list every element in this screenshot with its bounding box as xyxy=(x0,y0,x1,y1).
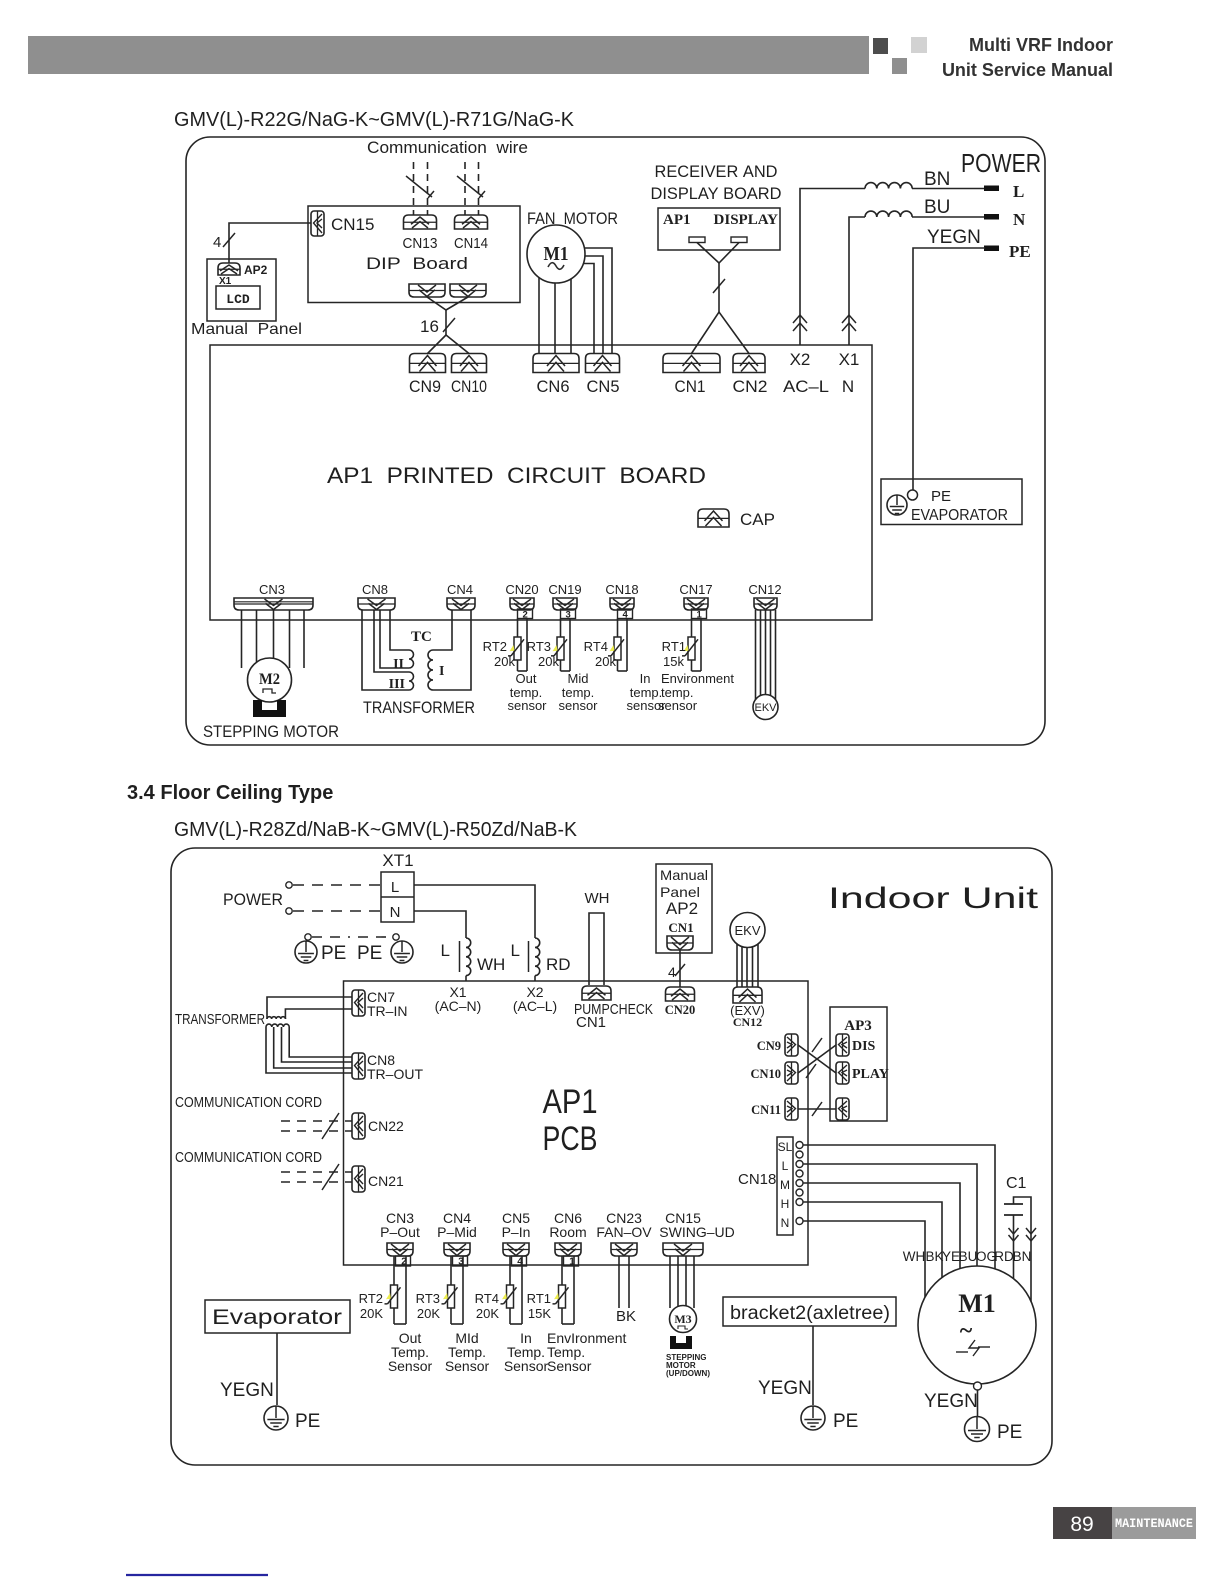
terminal L bar xyxy=(984,186,999,192)
label RT3 xyxy=(527,639,551,654)
terminal block CN18 xyxy=(777,1137,793,1235)
label Panel d2 xyxy=(660,884,700,900)
label TR-OUT xyxy=(367,1066,423,1082)
wire CN18 M to motor xyxy=(803,1183,960,1285)
connector AP3 third xyxy=(836,1098,849,1120)
svg-text:CN20: CN20 xyxy=(665,1003,696,1017)
node PE evaporator circle xyxy=(908,490,918,500)
svg-text:COMMUNICATION CORD: COMMUNICATION CORD xyxy=(175,1149,322,1166)
label RT3 d2 xyxy=(416,1291,440,1306)
svg-text:L: L xyxy=(782,1159,789,1173)
svg-text:PE: PE xyxy=(833,1411,858,1432)
box bracket2 xyxy=(723,1297,896,1326)
label M1 d2 xyxy=(958,1289,996,1318)
svg-text:(AC–N): (AC–N) xyxy=(435,998,482,1014)
svg-text:RT4: RT4 xyxy=(584,639,608,654)
connector CN2 xyxy=(733,354,765,373)
label DIS xyxy=(852,1039,876,1054)
svg-text:15K: 15K xyxy=(528,1306,551,1321)
svg-text:RT1: RT1 xyxy=(662,639,686,654)
label TRANSFORMER xyxy=(363,698,475,717)
svg-text:II: II xyxy=(393,657,404,672)
svg-text:CN22: CN22 xyxy=(368,1118,404,1134)
label RT1 xyxy=(662,639,686,654)
label EVAPORATOR xyxy=(911,507,1008,524)
svg-text:H: H xyxy=(781,1197,790,1211)
svg-text:DIS: DIS xyxy=(852,1039,876,1054)
sensor loop RT1 d2 xyxy=(553,1256,575,1324)
wire AP2 to CN15 xyxy=(229,223,311,263)
slash AP2 wire d2 xyxy=(675,964,685,976)
label RT3 text d2 xyxy=(445,1330,490,1374)
wire EKV to CN12 d2 xyxy=(737,940,758,987)
label CN1 xyxy=(675,377,706,396)
label CN6 xyxy=(537,377,570,396)
motor M2 circle xyxy=(248,658,292,702)
label WH choke xyxy=(477,955,505,974)
svg-text:X2: X2 xyxy=(790,350,811,369)
svg-text:DISPLAY: DISPLAY xyxy=(714,212,779,228)
ground PE right xyxy=(391,941,413,963)
label PE evaporator d2 xyxy=(295,1411,320,1432)
wire display board to CN1 CN2 xyxy=(692,243,750,354)
choke RD winding xyxy=(535,938,540,976)
wire AP2 to CN20 d2 xyxy=(679,950,681,987)
sensor loop RT3 xyxy=(551,609,576,671)
svg-text:BN: BN xyxy=(1013,1249,1032,1264)
label in temp sensor xyxy=(626,671,666,713)
label PUMPCHECK CN1 xyxy=(576,1014,606,1031)
float switch WH body xyxy=(589,913,604,985)
svg-text:PE: PE xyxy=(1009,242,1031,261)
connector CN9 d2 xyxy=(785,1034,798,1056)
ground PE bracket2 xyxy=(801,1406,825,1430)
svg-text:RT1: RT1 xyxy=(527,1291,551,1306)
svg-text:L: L xyxy=(391,879,399,896)
label M1 tilde d2 xyxy=(960,1318,973,1344)
wire comm cord 1a xyxy=(281,1120,352,1122)
svg-text:CN15: CN15 xyxy=(331,215,374,234)
svg-text:3.4 Floor Ceiling Type: 3.4 Floor Ceiling Type xyxy=(127,782,333,804)
label RT2 20K d2 xyxy=(360,1306,383,1321)
winding II xyxy=(409,650,414,668)
label AP1 big xyxy=(543,1083,598,1121)
slash 4-wire AP2 xyxy=(223,233,235,247)
header mid square xyxy=(892,58,907,74)
connector CN3 d2row xyxy=(387,1243,413,1256)
svg-text:Environment: Environment xyxy=(661,671,734,686)
label FAN MOTOR xyxy=(527,209,618,228)
wire M1 to CN6 c xyxy=(570,270,572,353)
sensor loop RT4 d2 xyxy=(501,1256,523,1324)
svg-text:Evaporator: Evaporator xyxy=(212,1306,342,1329)
slash comm cord 2 xyxy=(322,1164,339,1190)
terminal block XT1 xyxy=(381,872,414,922)
label CN20 d2 xyxy=(665,1003,696,1017)
label EXV xyxy=(730,1003,765,1018)
label RT2 20k xyxy=(494,654,515,669)
connector CN15 on DIP board xyxy=(311,211,324,236)
svg-text:CN1: CN1 xyxy=(668,920,693,935)
connector CN21 xyxy=(352,1166,365,1192)
symbol M3 mark xyxy=(678,1326,688,1329)
wire PE dashed right xyxy=(358,936,392,938)
label DISPLAY BOARD xyxy=(651,184,782,203)
wire DIP to 16-bus xyxy=(427,297,469,354)
motor M1 circle xyxy=(527,225,585,283)
label CN20 d1 xyxy=(505,582,538,597)
sensor loop RT3 d2 xyxy=(442,1256,464,1324)
svg-text:EKV: EKV xyxy=(734,923,760,938)
svg-text:DIP Board: DIP Board xyxy=(366,254,468,273)
wire CN18 N to motor xyxy=(803,1221,925,1310)
board AP1 PCB box xyxy=(344,981,809,1265)
box evaporator xyxy=(881,479,1022,525)
wire N to WH choke xyxy=(414,911,466,981)
svg-text:CN14: CN14 xyxy=(454,235,488,252)
connector AP3 PLAY xyxy=(836,1062,849,1084)
choke WH core xyxy=(459,941,461,972)
svg-text:SL: SL xyxy=(778,1140,793,1154)
label RT1 d2 xyxy=(527,1291,551,1306)
wire secondary to CN8 1 xyxy=(266,1027,352,1073)
pin number 4 xyxy=(512,1256,527,1268)
section heading 3.4 xyxy=(127,782,333,804)
label PE PE xyxy=(321,943,382,964)
label X1 terminal xyxy=(839,350,860,369)
label motor wire colours xyxy=(903,1249,1032,1264)
svg-text:CN18: CN18 xyxy=(605,582,638,597)
label X1 xyxy=(219,276,232,287)
label CN10 xyxy=(451,377,487,396)
node PE left circle xyxy=(305,934,311,940)
svg-text:WH: WH xyxy=(477,955,505,974)
wire M1 to CN5 b xyxy=(570,256,603,353)
label RT2 d2 xyxy=(359,1291,383,1306)
svg-text:PE: PE xyxy=(997,1422,1022,1443)
svg-text:YEGN: YEGN xyxy=(927,227,981,248)
terminal N bar xyxy=(984,214,999,220)
connector DIP lower b xyxy=(450,284,486,297)
board AP1 printed circuit board box xyxy=(210,345,872,620)
svg-text:Sensor: Sensor xyxy=(547,1358,592,1374)
label RD choke xyxy=(546,955,571,974)
svg-text:sensor: sensor xyxy=(658,698,698,713)
wire PE to evaporator xyxy=(913,248,985,490)
svg-text:CN4: CN4 xyxy=(447,582,473,597)
connector CN10 d2 xyxy=(785,1062,798,1084)
svg-text:COMMUNICATION CORD: COMMUNICATION CORD xyxy=(175,1094,322,1111)
wire power L dashed xyxy=(293,884,381,886)
node PE right circle xyxy=(393,934,399,940)
svg-text:In: In xyxy=(640,671,651,686)
capacitor C1 xyxy=(1004,1197,1031,1310)
label Indoor Unit xyxy=(828,882,1039,915)
svg-text:CN1: CN1 xyxy=(576,1014,606,1031)
capacitor CAP symbol xyxy=(698,509,729,527)
connector CN12 d1 xyxy=(754,598,777,610)
svg-text:CAP: CAP xyxy=(740,510,775,529)
wire evaporator to PE xyxy=(276,1333,278,1405)
slash CN11 wire xyxy=(812,1102,822,1116)
label AP2 xyxy=(244,263,268,277)
label M3 xyxy=(674,1312,691,1326)
connector CN8 d2 xyxy=(352,1053,365,1079)
connector CN5 d2row xyxy=(503,1243,529,1256)
label WH pumpcheck xyxy=(585,890,610,907)
sensor loop RT2 d2 xyxy=(385,1256,407,1324)
wire CN4 to coil I a xyxy=(433,610,452,650)
ground PE M1 xyxy=(965,1417,990,1442)
label DIP Board xyxy=(366,254,468,273)
svg-text:PE: PE xyxy=(357,943,382,964)
label CN1 d2 xyxy=(668,920,693,935)
svg-text:Communication wire: Communication wire xyxy=(367,138,528,157)
svg-text:RT2: RT2 xyxy=(483,639,507,654)
svg-text:CN2: CN2 xyxy=(733,377,768,396)
svg-text:Sensor: Sensor xyxy=(504,1358,549,1374)
terminal PE bar xyxy=(984,246,999,252)
symbol M1 protector xyxy=(956,1340,990,1356)
wire M1 to PE xyxy=(977,1390,979,1416)
wire CN11 to AP3 xyxy=(798,1108,836,1110)
box manual panel AP2 xyxy=(207,259,276,321)
svg-text:P–In: P–In xyxy=(502,1224,531,1240)
svg-text:L: L xyxy=(511,941,520,960)
ground PE evaporator d2 xyxy=(264,1406,288,1430)
slash comm cord 1 xyxy=(322,1113,339,1139)
wire communication dashed b xyxy=(427,162,429,215)
svg-text:TRANSFORMER: TRANSFORMER xyxy=(175,1011,265,1028)
stub connector display b xyxy=(731,237,747,243)
svg-text:PE: PE xyxy=(931,488,951,505)
label X1 AC-N xyxy=(435,984,482,1014)
pins CN18 xyxy=(796,1142,803,1225)
svg-text:Indoor Unit: Indoor Unit xyxy=(828,882,1039,915)
label TRANSFORMER d2 xyxy=(175,1011,265,1028)
wire CN15 to M3 xyxy=(670,1256,694,1308)
label PE M1 xyxy=(997,1422,1022,1443)
wire M1 to CN5 a xyxy=(570,248,612,353)
wire secondary to CN8 2 xyxy=(274,1027,352,1068)
svg-text:TR–IN: TR–IN xyxy=(367,1003,407,1019)
wire M1 to CN6 a xyxy=(538,270,540,353)
svg-text:MAINTENANCE: MAINTENANCE xyxy=(1115,1517,1193,1531)
connector CN6 d2row xyxy=(555,1243,581,1256)
wire X2 to L terminal xyxy=(800,189,985,346)
wire CN23 BK b xyxy=(628,1256,630,1308)
label CN6 d2 xyxy=(549,1210,586,1240)
svg-text:Room: Room xyxy=(549,1224,586,1240)
label CN18 d1 xyxy=(605,582,638,597)
footer section box xyxy=(1112,1507,1196,1539)
valve EKV circle d2 xyxy=(730,913,765,948)
connector X1 on AP2 xyxy=(218,263,240,275)
connector CN1 xyxy=(663,354,720,373)
symbol M2 mark xyxy=(263,689,276,693)
wire CN8 to coil III b xyxy=(362,610,409,690)
label RT2 text d2 xyxy=(388,1330,433,1374)
svg-text:EKV: EKV xyxy=(754,702,777,714)
stub connector display a xyxy=(689,237,705,243)
svg-text:N: N xyxy=(842,377,854,396)
model title diagram 2 xyxy=(174,819,578,841)
box LCD xyxy=(216,286,260,309)
label YEGN bracket2 xyxy=(758,1378,812,1399)
connector CN23 d2row xyxy=(611,1243,637,1256)
label COMMUNICATION CORD 1 xyxy=(175,1094,322,1111)
box DIP board xyxy=(308,206,520,303)
svg-text:AP3: AP3 xyxy=(844,1018,872,1034)
sensor loop RT4 xyxy=(608,609,633,671)
label CN14 xyxy=(454,235,488,252)
connector CN4 d2row xyxy=(444,1243,470,1256)
sensor loop RT2 xyxy=(508,609,533,671)
svg-text:AP1 PRINTED CIRCUIT BOARD: AP1 PRINTED CIRCUIT BOARD xyxy=(327,463,706,488)
pin number 1 xyxy=(564,1256,579,1268)
wire CN10 to DIS xyxy=(798,1045,836,1073)
label CN11 d2 xyxy=(751,1103,781,1117)
connector CN22 xyxy=(352,1113,365,1139)
label Communication wire xyxy=(367,138,528,157)
svg-text:Out: Out xyxy=(516,671,537,686)
motor M1 circle d2 xyxy=(918,1266,1036,1384)
arrow C1 left xyxy=(1009,1228,1019,1241)
label CN15 d2 xyxy=(659,1210,734,1240)
svg-text:L: L xyxy=(441,941,450,960)
svg-text:FAN MOTOR: FAN MOTOR xyxy=(527,209,618,228)
label CN23 d2 xyxy=(596,1210,652,1240)
svg-text:DISPLAY BOARD: DISPLAY BOARD xyxy=(651,184,782,203)
header dark square xyxy=(873,38,888,54)
label BK xyxy=(616,1308,636,1325)
label PCB big xyxy=(543,1120,598,1158)
label CN13 xyxy=(403,235,438,252)
label CN18 N xyxy=(781,1216,790,1230)
winding I xyxy=(428,650,433,690)
label CN5 d2 xyxy=(502,1210,531,1240)
svg-text:20k: 20k xyxy=(595,654,616,669)
label XT1 xyxy=(382,851,413,870)
label CN21 xyxy=(368,1173,404,1189)
sensor loop RT1 xyxy=(682,609,707,671)
header gray bar xyxy=(28,36,869,74)
svg-text:YEGN: YEGN xyxy=(220,1380,274,1401)
svg-text:EVAPORATOR: EVAPORATOR xyxy=(911,507,1008,524)
svg-text:CN9: CN9 xyxy=(757,1039,781,1053)
label RT4 text d2 xyxy=(504,1330,549,1374)
wire X1 to N terminal xyxy=(849,217,985,345)
svg-text:sensor: sensor xyxy=(507,698,547,713)
label AC-L xyxy=(783,377,829,396)
svg-text:X1: X1 xyxy=(839,350,860,369)
svg-text:STEPPING MOTOR: STEPPING MOTOR xyxy=(203,722,339,741)
svg-text:RECEIVER AND: RECEIVER AND xyxy=(655,162,778,181)
label CN19 xyxy=(548,582,581,597)
model title diagram 1 xyxy=(174,109,575,131)
svg-text:BU: BU xyxy=(959,1249,978,1264)
svg-text:RT3: RT3 xyxy=(416,1291,440,1306)
connector CN19 xyxy=(553,598,577,610)
svg-text:CN11: CN11 xyxy=(751,1103,781,1117)
svg-text:N: N xyxy=(781,1216,790,1230)
wire CN3 to M2 xyxy=(242,610,305,668)
footer blue rule xyxy=(126,1574,268,1576)
svg-text:GMV(L)-R28Zd/NaB-K~GMV(L)-R50Z: GMV(L)-R28Zd/NaB-K~GMV(L)-R50Zd/NaB-K xyxy=(174,819,578,841)
wire bracket2 to PE xyxy=(812,1326,814,1405)
connector CN8 d1 xyxy=(358,598,395,610)
box manual panel d2 xyxy=(656,864,712,953)
svg-text:CN1: CN1 xyxy=(675,377,706,396)
label Manual d2 xyxy=(660,867,708,883)
wire power N dashed xyxy=(293,910,381,912)
svg-text:Manual: Manual xyxy=(660,867,708,883)
connector CN3 xyxy=(234,598,313,610)
svg-text:TRANSFORMER: TRANSFORMER xyxy=(363,698,475,717)
label X2 AC-L xyxy=(513,984,557,1014)
svg-text:PLAY: PLAY xyxy=(852,1067,889,1082)
motor M3 circle xyxy=(670,1306,697,1333)
wire communication dashed a xyxy=(413,162,415,215)
svg-text:Manual Panel: Manual Panel xyxy=(191,321,302,338)
svg-text:CN20: CN20 xyxy=(505,582,538,597)
svg-text:SWING–UD: SWING–UD xyxy=(659,1224,734,1240)
header title line 2 xyxy=(942,60,1113,80)
label 16 wires xyxy=(420,317,439,336)
label CN12 d2 xyxy=(733,1015,762,1029)
svg-text:CN9: CN9 xyxy=(409,377,441,396)
label CN18 M xyxy=(780,1178,790,1192)
label 4 wires AP2 xyxy=(213,234,221,251)
svg-text:20K: 20K xyxy=(417,1306,440,1321)
label AP1 on board xyxy=(663,212,691,228)
wire CN8 to coil II b xyxy=(380,610,409,668)
wire M1 to CN6 b xyxy=(554,280,556,353)
label DISPLAY on board xyxy=(714,212,779,228)
diagram 1 frame xyxy=(186,137,1045,745)
svg-text:~: ~ xyxy=(960,1318,973,1344)
label RT1 15K d2 xyxy=(528,1306,551,1321)
pin number 2 xyxy=(396,1256,411,1268)
svg-text:M: M xyxy=(780,1178,790,1192)
svg-text:CN13: CN13 xyxy=(403,235,438,252)
svg-text:RT4: RT4 xyxy=(475,1291,499,1306)
label CN18 L xyxy=(782,1159,789,1173)
node power L circle xyxy=(286,882,292,888)
wire secondary to CN8 4 xyxy=(289,1027,352,1057)
arrow X2 xyxy=(793,315,807,331)
svg-text:PE: PE xyxy=(295,1411,320,1432)
diagram 2 frame xyxy=(171,848,1052,1465)
box evaporator d2 xyxy=(205,1300,350,1333)
connector CN11 d2 xyxy=(785,1098,798,1120)
wire CN18 SL to motor xyxy=(803,1145,995,1280)
wire CN12 to EKV xyxy=(756,610,776,700)
svg-text:PE: PE xyxy=(321,943,346,964)
svg-text:GMV(L)-R22G/NaG-K~GMV(L)-R71G/: GMV(L)-R22G/NaG-K~GMV(L)-R71G/NaG-K xyxy=(174,109,575,131)
label mid temp sensor xyxy=(558,671,598,713)
svg-text:bracket2(axletree): bracket2(axletree) xyxy=(730,1303,890,1324)
svg-text:CN12: CN12 xyxy=(748,582,781,597)
connector CN7 xyxy=(352,990,365,1016)
svg-text:Mid: Mid xyxy=(568,671,589,686)
label RT1 text d2 xyxy=(547,1330,626,1374)
svg-text:C1: C1 xyxy=(1006,1175,1027,1192)
label CN18 xyxy=(738,1171,776,1188)
label X2 xyxy=(790,350,811,369)
label CN8 d1 xyxy=(362,582,388,597)
label L choke WH xyxy=(441,941,450,960)
